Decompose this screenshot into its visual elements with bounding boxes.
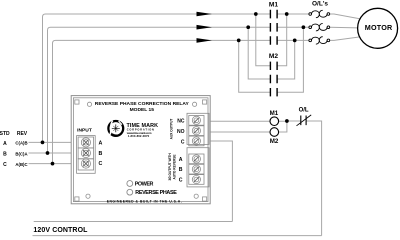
3-phase output terminal block xyxy=(187,148,209,187)
contact M2 pole 1 xyxy=(270,62,277,70)
contact M2 pole 2 xyxy=(270,75,277,83)
wire input A xyxy=(29,141,83,143)
wire M2 row1 left (from L1 line tap) xyxy=(256,14,270,66)
junction node input A xyxy=(41,141,45,145)
motor circle xyxy=(358,8,398,48)
phase arrow L3 xyxy=(197,38,213,43)
mounting hole top-left xyxy=(87,102,91,106)
svg-text:A: A xyxy=(3,141,7,147)
svg-text:MOTOR: MOTOR xyxy=(365,23,393,32)
aux terminal NO xyxy=(189,126,204,136)
svg-text:POWER: POWER xyxy=(135,181,154,187)
svg-text:REVERSE PHASE: REVERSE PHASE xyxy=(135,190,177,196)
junction node L1 line tap xyxy=(254,12,258,16)
junction node coil common xyxy=(285,119,289,123)
wire L3 load side to O/L xyxy=(277,39,309,41)
svg-text:STD: STD xyxy=(0,131,10,137)
svg-text:B: B xyxy=(99,151,103,157)
aux terminal C xyxy=(189,136,204,146)
svg-text:NC: NC xyxy=(177,119,185,125)
coil M1 xyxy=(270,117,279,126)
svg-text:M1: M1 xyxy=(270,110,279,117)
mounting hole bottom-right xyxy=(194,194,198,198)
wire L2 feed xyxy=(48,27,271,153)
contact M1 pole L3 xyxy=(270,36,277,45)
wire L2 load side to O/L xyxy=(277,26,309,28)
svg-text:C(A)B: C(A)B xyxy=(15,141,27,146)
svg-text:B(C)A: B(C)A xyxy=(15,151,27,156)
svg-text:120V CONTROL: 120V CONTROL xyxy=(33,227,88,234)
contact M2 pole 3 xyxy=(270,88,277,96)
wire 120V hot line xyxy=(34,221,233,223)
wire aux NO to M2 coil xyxy=(209,131,270,133)
svg-text:M1: M1 xyxy=(269,2,278,9)
corner square TR xyxy=(203,100,207,104)
wire input C xyxy=(29,163,83,165)
contact M1 pole L2 xyxy=(270,23,277,32)
svg-text:M2: M2 xyxy=(269,53,278,60)
overload heater L2 xyxy=(309,24,330,31)
svg-text:C: C xyxy=(181,139,185,145)
input terminal block xyxy=(77,136,96,174)
junction node L2 line tap xyxy=(246,25,250,29)
svg-text:ENGINEERED & BUILT IN THE U.S.: ENGINEERED & BUILT IN THE U.S.A. xyxy=(107,199,182,203)
junction node L3 line tap xyxy=(237,39,241,43)
wire 120V neutral line xyxy=(33,235,322,237)
svg-text:M2: M2 xyxy=(270,138,279,145)
svg-text:O/L's: O/L's xyxy=(312,0,328,7)
relay box outer border xyxy=(71,96,210,204)
svg-text:C: C xyxy=(179,178,183,184)
overload heater L3 xyxy=(309,37,330,44)
svg-text:B: B xyxy=(3,151,7,157)
wire M2 row2 right (to L3 load tap) xyxy=(277,40,294,79)
input terminal B xyxy=(78,148,94,159)
svg-text:NO: NO xyxy=(177,129,185,135)
junction node input C xyxy=(51,162,55,166)
svg-text:A: A xyxy=(179,157,183,163)
svg-text:1-800-862-2870: 1-800-862-2870 xyxy=(128,134,150,138)
wire aux C to 120V hot xyxy=(209,141,232,222)
svg-text:C: C xyxy=(99,161,103,167)
wire L1 feed (corner + horizontal to M1, vertical drop to input A) xyxy=(43,14,271,142)
contact M1 pole L1 xyxy=(270,10,277,19)
junction node L3 load tap xyxy=(293,39,297,43)
wire L3 O/L to motor xyxy=(330,37,361,41)
svg-text:REV: REV xyxy=(17,131,28,137)
Time Mark logo xyxy=(108,121,123,136)
svg-text:MODEL 15: MODEL 15 xyxy=(130,107,155,113)
input terminal A xyxy=(78,137,94,148)
input terminal C xyxy=(78,159,94,170)
svg-text:C: C xyxy=(3,162,7,168)
svg-text:B: B xyxy=(179,167,183,173)
wire M2 row3 left (from L3 line tap) xyxy=(239,40,270,92)
junction node input B xyxy=(46,151,50,155)
svg-text:INPUT: INPUT xyxy=(77,128,92,134)
LED REVERSE PHASE xyxy=(127,189,133,195)
wire aux NC to M1 coil xyxy=(209,120,270,122)
corner square BL xyxy=(75,197,79,201)
svg-text:A(B)C: A(B)C xyxy=(15,162,27,167)
LED POWER xyxy=(127,181,133,187)
mounting hole top-right xyxy=(193,102,197,106)
output terminal A xyxy=(189,154,204,164)
wire L3 feed xyxy=(53,40,271,163)
junction node L2 load tap xyxy=(302,25,306,29)
contactor M2 contacts xyxy=(270,62,277,97)
phase arrow L1 xyxy=(197,12,213,17)
junction node L1 load tap xyxy=(285,12,289,16)
svg-text:A: A xyxy=(99,141,103,147)
corner square TL xyxy=(75,100,79,104)
output terminal C xyxy=(189,175,204,185)
wire M2 row1 right (to L1 load tap) xyxy=(277,14,286,66)
overload heater L1 xyxy=(309,10,330,17)
wire L2 O/L to motor xyxy=(330,26,358,29)
aux output terminal block xyxy=(187,113,209,144)
wire L1 O/L to motor xyxy=(330,14,361,19)
aux terminal NC xyxy=(189,116,204,126)
overload NC contact xyxy=(297,115,312,126)
mounting hole bottom-left xyxy=(86,194,90,198)
svg-text:REVERSE PHASE CORRECTION RELAY: REVERSE PHASE CORRECTION RELAY xyxy=(95,101,190,107)
svg-text:O/L: O/L xyxy=(299,107,309,113)
coil M2 xyxy=(270,128,279,137)
wire O/L contact to neutral xyxy=(306,121,322,236)
wire input B xyxy=(29,152,83,154)
svg-text:AUTO REVERSE: AUTO REVERSE xyxy=(172,154,176,179)
wire M2 row3 right (to L2 load tap) xyxy=(277,27,303,92)
wire M2 row2 left (from L2 line tap) xyxy=(248,27,270,79)
corner square BR xyxy=(203,197,207,201)
wire L1 load side to O/L xyxy=(277,13,309,15)
output terminal B xyxy=(189,164,204,174)
wire coil junction to O/L contact xyxy=(279,121,301,132)
svg-text:AUX OUTPUT: AUX OUTPUT xyxy=(169,119,173,140)
contactor M1 contacts xyxy=(270,10,277,45)
relay box inner border xyxy=(73,98,208,202)
phase arrow L2 xyxy=(197,25,213,30)
